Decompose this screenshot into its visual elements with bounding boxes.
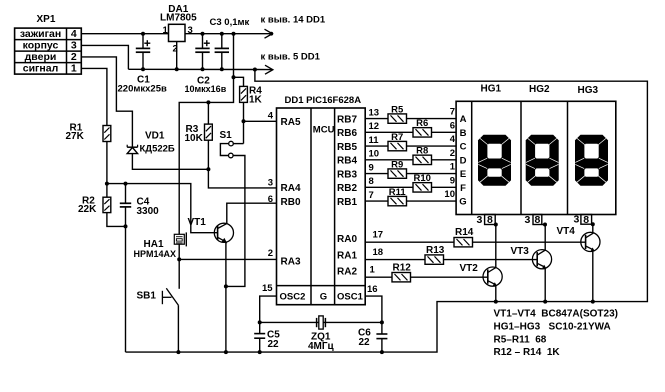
wire RB5 pin 11 stub (365, 145, 388, 147)
node DA1 pin2 junction (175, 67, 179, 71)
wire R11 to display segment (407, 200, 457, 202)
node C2 bottom junction (201, 67, 205, 71)
resistor R11 (388, 196, 407, 205)
wire R13 to VT3 base (444, 259, 538, 261)
svg-text:HG1–HG3 SC10-21YWA: HG1–HG3 SC10-21YWA (494, 322, 611, 333)
wire R2 bottom elbow (107, 213, 126, 227)
svg-text:2: 2 (71, 51, 77, 63)
svg-text:RA4: RA4 (281, 183, 301, 194)
svg-text:R11: R11 (389, 187, 407, 198)
node VT2 emitter junction (494, 300, 498, 304)
wire R7 to display segment (407, 145, 457, 147)
wire RA3 pin2 (179, 258, 276, 260)
svg-text:R8: R8 (416, 146, 428, 157)
wire RA0 pin17 to R14 (365, 241, 454, 243)
svg-text:8: 8 (369, 176, 374, 187)
svg-text:двери: двери (25, 51, 57, 63)
connector XP1 body (15, 28, 82, 74)
display HG3 pin 8 box (581, 215, 592, 225)
node RA5/S1 junction (242, 119, 246, 123)
capacitor C1 wires (142, 34, 144, 49)
node VT4 emitter junction (591, 300, 595, 304)
wire ground rail (128, 68, 255, 70)
switch S1 top contact (229, 141, 234, 146)
node +5V branch junction (232, 32, 236, 36)
svg-text:7: 7 (369, 190, 374, 201)
svg-text:8: 8 (487, 214, 493, 226)
node C6 ground junction (380, 350, 384, 354)
resistor R10 (413, 183, 432, 192)
wire R5 to display segment (407, 118, 457, 120)
wire двери XP1 pin2 to VD1 (81, 57, 132, 147)
resistor R6 (413, 128, 432, 137)
svg-text:R6: R6 (416, 118, 428, 129)
node VT1 emitter ground junction (224, 350, 228, 354)
resistor R12 (392, 273, 411, 282)
svg-text:12: 12 (369, 121, 380, 132)
display HG1 pin 8 box (485, 215, 496, 225)
svg-text:VT4: VT4 (557, 226, 576, 237)
pushbutton SB1 lever (166, 288, 178, 305)
svg-text:LM7805: LM7805 (160, 13, 197, 24)
node R3 top junction (206, 100, 210, 104)
svg-text:8: 8 (583, 214, 589, 226)
digit HG2 (526, 135, 559, 186)
svg-text:16: 16 (367, 284, 378, 295)
node C1 top junction (141, 32, 145, 36)
MCU DD1 body (277, 108, 366, 305)
wire RA5 pin4 (244, 120, 277, 122)
wire VT1 emitter down (225, 242, 227, 352)
transistor VT1 body (214, 223, 233, 242)
svg-text:MCU: MCU (313, 125, 335, 136)
svg-text:VT1: VT1 (188, 217, 207, 228)
svg-text:F: F (460, 183, 466, 194)
wire +5V rail DA1 pin3 to arrow (185, 33, 272, 35)
wire RB2 pin 8 stub (365, 186, 413, 188)
svg-text:1: 1 (370, 265, 376, 276)
switch S1 bottom lead (226, 156, 245, 287)
node R3 bottom junction (206, 167, 210, 171)
svg-text:3: 3 (525, 214, 531, 226)
node C4 bottom junction (124, 224, 128, 228)
wire R10 to display segment (432, 186, 457, 188)
svg-text:RB6: RB6 (337, 128, 357, 139)
svg-text:10мкх16в: 10мкх16в (185, 84, 227, 94)
diode VD1 cathode bar (127, 146, 137, 148)
node HG3 common junction (591, 222, 595, 226)
svg-text:2: 2 (268, 248, 273, 259)
node R4 tap junction (232, 75, 236, 79)
svg-text:RA2: RA2 (337, 267, 357, 278)
node SB1 ground junction (176, 350, 180, 354)
svg-text:18: 18 (373, 247, 384, 258)
svg-text:E: E (460, 169, 466, 180)
svg-text:зажиган: зажиган (20, 28, 61, 40)
node ground branch junction (253, 68, 257, 72)
node C3 bottom junction (220, 67, 224, 71)
svg-text:R10: R10 (413, 173, 430, 184)
wire OSC1 pin16 (365, 296, 382, 322)
node HG1 common junction (494, 223, 498, 227)
node C2 top junction (201, 32, 205, 36)
wire R4 to RA5 node (243, 102, 245, 121)
svg-text:RB0: RB0 (281, 197, 301, 208)
wire RA4 pin3 (208, 169, 276, 188)
buzzer HA1 body (174, 234, 184, 244)
svg-text:4: 4 (71, 28, 77, 40)
svg-text:R9: R9 (391, 159, 403, 170)
svg-text:DD1 PIC16F628A: DD1 PIC16F628A (285, 95, 362, 106)
wire R4 jog (234, 77, 244, 86)
svg-text:VT3: VT3 (511, 246, 530, 257)
display HG2 pin 8 box (533, 215, 542, 225)
svg-text:9: 9 (450, 175, 455, 186)
svg-text:3: 3 (71, 40, 77, 52)
capacitor C4 bottom lead (125, 207, 127, 227)
wire divider to VT1 base (107, 184, 218, 233)
pushbutton SB1 bottom lead (177, 305, 179, 352)
svg-text:27K: 27K (66, 131, 85, 142)
svg-text:R5–R11 68: R5–R11 68 (494, 335, 547, 346)
node divider junction (105, 182, 109, 186)
svg-text:1: 1 (163, 25, 169, 36)
svg-text:HPM14AX: HPM14AX (134, 249, 177, 259)
svg-text:C3 0,1мк: C3 0,1мк (210, 17, 250, 28)
display body (456, 101, 616, 214)
svg-text:10K: 10K (185, 133, 204, 144)
capacitor C2 wires (202, 34, 204, 49)
svg-text:22: 22 (359, 337, 371, 348)
svg-text:3: 3 (477, 214, 483, 226)
resistor R8 (413, 155, 432, 164)
svg-text:2: 2 (450, 148, 455, 159)
svg-text:R13: R13 (426, 245, 445, 256)
capacitor C4 top lead (125, 184, 127, 204)
svg-text:1K: 1K (249, 95, 263, 106)
transistor VT4 body (581, 232, 600, 251)
svg-text:R12: R12 (393, 262, 412, 273)
transistor VT2 body (483, 267, 502, 286)
svg-text:RA3: RA3 (281, 256, 301, 267)
wire +5V branch down and left to HA1 (179, 34, 233, 235)
svg-text:VT1–VT4 BC847A(SOT23): VT1–VT4 BC847A(SOT23) (494, 309, 619, 320)
wire RB3 pin 9 stub (365, 173, 388, 175)
svg-text:КД522Б: КД522Б (140, 143, 175, 154)
wire R6 to display segment (432, 131, 457, 133)
svg-text:6: 6 (268, 194, 273, 205)
transistor VT3 body (532, 250, 551, 269)
resistor R7 (388, 141, 407, 150)
svg-text:17: 17 (373, 230, 384, 241)
svg-text:корпус: корпус (23, 40, 59, 52)
svg-text:3: 3 (188, 25, 193, 36)
pushbutton SB1 actuator (161, 291, 163, 304)
node C6 top junction (380, 320, 384, 324)
wire R12 to VT2 base (411, 276, 488, 278)
node VT3 emitter junction (543, 300, 547, 304)
resistor R2 (103, 197, 111, 212)
svg-text:VD1: VD1 (145, 131, 165, 142)
svg-text:R12 – R14 1K: R12 – R14 1K (494, 347, 561, 358)
svg-text:B: B (460, 128, 467, 139)
node C3 top junction (220, 32, 224, 36)
svg-text:3: 3 (268, 178, 273, 189)
svg-text:22: 22 (268, 339, 280, 350)
node HG2 common junction (543, 223, 547, 227)
svg-text:RB7: RB7 (337, 114, 357, 125)
voltage regulator DA1 body (169, 24, 186, 41)
svg-text:15: 15 (262, 283, 273, 294)
wire C4 ground drop (125, 226, 127, 352)
wire корпус XP1 pin3 to ground rail (81, 45, 128, 69)
svg-text:7: 7 (450, 107, 455, 118)
resistor R1 (103, 126, 111, 142)
svg-text:OSC2: OSC2 (280, 291, 306, 302)
switch S1 bridge (220, 144, 228, 156)
capacitor C6 (381, 339, 383, 353)
svg-text:к выв. 14 DD1: к выв. 14 DD1 (261, 15, 326, 26)
wire VT2 emitter (495, 286, 497, 302)
resistor R9 (388, 169, 407, 178)
DA1 pin 2 stub (176, 42, 178, 70)
wire R8 to display segment (432, 159, 457, 161)
svg-text:D: D (460, 155, 467, 166)
capacitor C2 (195, 47, 209, 49)
svg-text:RB1: RB1 (337, 197, 357, 208)
capacitor C5 (259, 338, 261, 352)
svg-text:8: 8 (534, 214, 540, 226)
capacitor C4 (120, 202, 131, 204)
wire RB1 pin 7 stub (365, 200, 388, 202)
svg-text:RB3: RB3 (337, 169, 357, 180)
diode VD1 triangle (127, 147, 137, 153)
svg-text:R5: R5 (391, 104, 404, 115)
arrow to pin 14 DD1 (265, 29, 273, 38)
svg-text:G: G (459, 197, 466, 208)
wire +12V from XP1 pin4 to DA1 pin1 (81, 33, 168, 35)
wire R9 to display segment (407, 173, 457, 175)
crystal ZQ1 (316, 318, 318, 327)
wire HA1 to SB1 (178, 244, 180, 289)
capacitor C3 (215, 47, 229, 49)
wire RA2 pin1 to R12 (365, 276, 392, 278)
digit HG3 (575, 135, 608, 186)
svg-text:10: 10 (444, 189, 455, 200)
switch S1 top lead (243, 121, 245, 143)
wire R14 to VT4 base (473, 241, 586, 243)
arrow to pin 5 DD1 (265, 65, 273, 74)
svg-text:RB5: RB5 (337, 142, 357, 153)
svg-text:1: 1 (450, 162, 456, 173)
svg-text:RB4: RB4 (337, 156, 357, 167)
svg-text:R14: R14 (455, 227, 474, 238)
svg-text:RA1: RA1 (337, 250, 357, 261)
wire R1 to R2 (106, 142, 108, 198)
digit HG1 (478, 135, 511, 186)
node C5 top junction (258, 320, 262, 324)
svg-text:S1: S1 (220, 130, 233, 141)
svg-text:1: 1 (71, 63, 77, 75)
resistor R5 (388, 114, 407, 123)
svg-text:RB2: RB2 (337, 183, 357, 194)
svg-text:10: 10 (369, 149, 380, 160)
svg-text:A: A (460, 114, 467, 125)
svg-text:VT2: VT2 (460, 263, 479, 274)
wire RB4 pin 10 stub (365, 159, 413, 161)
wire VD1 anode to R3 bottom (132, 154, 208, 170)
wire VT3 emitter (544, 268, 546, 301)
svg-text:4: 4 (450, 134, 456, 145)
svg-text:3300: 3300 (137, 206, 160, 217)
svg-text:3: 3 (574, 214, 580, 226)
wire RB7 pin 13 stub (365, 118, 388, 120)
wire VT4 emitter (592, 251, 594, 302)
wire VT4 collector (592, 224, 594, 233)
node C1 bottom junction (141, 67, 145, 71)
svg-text:9: 9 (369, 162, 374, 173)
wire VT2 collector (495, 225, 497, 268)
svg-text:HG3: HG3 (578, 85, 599, 96)
svg-text:RA0: RA0 (337, 234, 357, 245)
svg-text:XP1: XP1 (37, 14, 56, 25)
resistor R3 leads (207, 102, 209, 124)
svg-text:к выв. 5 DD1: к выв. 5 DD1 (261, 52, 321, 63)
svg-text:HG2: HG2 (529, 84, 550, 95)
wire ground loop (126, 70, 648, 353)
svg-text:SB1: SB1 (137, 290, 157, 301)
svg-text:R7: R7 (391, 132, 403, 143)
wire VT3 collector (544, 225, 546, 251)
node VT1 emitter junction (224, 284, 228, 288)
wire crystal net (260, 321, 382, 323)
svg-text:22K: 22K (78, 204, 97, 215)
capacitor C1 (136, 47, 150, 49)
svg-text:RA5: RA5 (281, 117, 301, 128)
wire RA1 pin18 to R13 (365, 259, 425, 261)
resistor R14 (454, 238, 473, 247)
svg-text:C: C (460, 142, 467, 153)
node C5 ground junction (258, 350, 262, 354)
wire OSC2 pin15 (260, 296, 277, 322)
resistor R13 (425, 255, 444, 264)
svg-text:4: 4 (268, 111, 274, 122)
node RA3 junction (177, 257, 181, 261)
wire VT1 collector to RB0 pin6 (227, 203, 277, 223)
svg-text:13: 13 (369, 107, 380, 118)
wire сигнал XP1 pin1 down (81, 68, 107, 125)
svg-text:OSC1: OSC1 (337, 291, 364, 302)
svg-text:4МГц: 4МГц (308, 341, 335, 352)
wire RB6 pin 12 stub (365, 131, 413, 133)
capacitor C3 wires (221, 34, 223, 49)
svg-text:HG1: HG1 (481, 84, 502, 95)
node C4 top junction (124, 182, 128, 186)
resistor R4 (240, 86, 248, 102)
svg-text:11: 11 (369, 135, 380, 146)
svg-text:G: G (320, 291, 327, 302)
svg-text:6: 6 (450, 120, 455, 131)
svg-text:сигнал: сигнал (23, 63, 59, 75)
resistor R3 (205, 124, 213, 140)
switch S1 bottom contact (229, 153, 234, 158)
svg-text:220мкх25в: 220мкх25в (118, 84, 167, 95)
